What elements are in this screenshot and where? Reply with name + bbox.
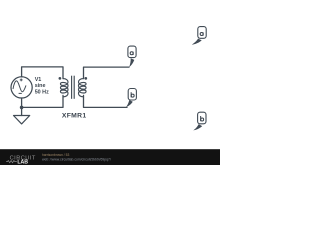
logo resistor zigzag	[6, 161, 17, 163]
node flag b (attached)	[126, 89, 136, 108]
wire bottom left	[22, 95, 63, 107]
wire secondary top to node a	[84, 67, 130, 79]
svg-text:web : / /www.circuitlab.com/ci: web : / /www.circuitlab.com/circuit/2kb9…	[42, 157, 111, 161]
svg-text:50 Hz: 50 Hz	[35, 90, 49, 96]
svg-text:XFMR1: XFMR1	[62, 113, 87, 120]
node flag b (floating right)	[193, 112, 206, 130]
node flag a (floating right)	[192, 27, 206, 45]
node flag a (attached)	[128, 46, 136, 67]
watermark text	[42, 153, 111, 161]
voltage source V1	[11, 77, 32, 98]
transformer XFMR1 primary winding	[60, 79, 68, 97]
label V1 sine 50 Hz	[35, 77, 49, 96]
polarity dot secondary	[84, 77, 87, 80]
svg-text:V1: V1	[35, 77, 42, 83]
watermark bar	[0, 149, 220, 165]
wire secondary bottom to node b	[84, 95, 128, 107]
transformer core	[72, 76, 75, 99]
transformer XFMR1 secondary winding	[78, 79, 86, 97]
svg-text:sine: sine	[35, 83, 46, 89]
junction node	[20, 106, 24, 110]
ground	[14, 116, 30, 124]
polarity dot primary	[59, 77, 62, 80]
svg-text:LAB: LAB	[17, 159, 28, 165]
CircuitLab logo	[10, 156, 36, 166]
wire ground stem	[21, 107, 23, 115]
wire top left	[22, 67, 63, 79]
